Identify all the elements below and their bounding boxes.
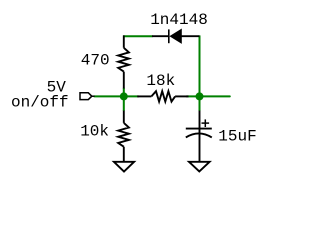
node junction left	[120, 92, 128, 100]
wire: vertical net through left junction	[123, 88, 125, 111]
pin stub of input port	[92, 95, 95, 97]
resistor R 18k (horizontal)	[137, 91, 188, 101]
resistor R 470 (vertical)	[118, 35, 129, 88]
svg-text:15uF: 15uF	[218, 127, 256, 145]
diode D 1n4148	[152, 29, 199, 43]
capacitor C 15uF (polarized)	[186, 111, 212, 163]
ground under 10k	[114, 162, 134, 172]
wire: right vertical net from diode to capacitor	[199, 35, 201, 111]
svg-text:1n4148: 1n4148	[150, 11, 208, 29]
svg-text:18k: 18k	[146, 72, 175, 90]
svg-text:470: 470	[81, 51, 110, 69]
wire: main horizontal net right of 18k	[187, 95, 230, 97]
wire: top horizontal net to diode	[123, 35, 153, 37]
resistor R 10k (vertical)	[118, 111, 129, 163]
svg-text:10k: 10k	[80, 123, 109, 141]
wire: main horizontal net left of 18k	[94, 95, 138, 97]
input port 5V on/off	[80, 93, 92, 100]
svg-text:on/off: on/off	[11, 94, 69, 112]
node junction right	[196, 92, 204, 100]
ground under capacitor	[189, 162, 210, 172]
